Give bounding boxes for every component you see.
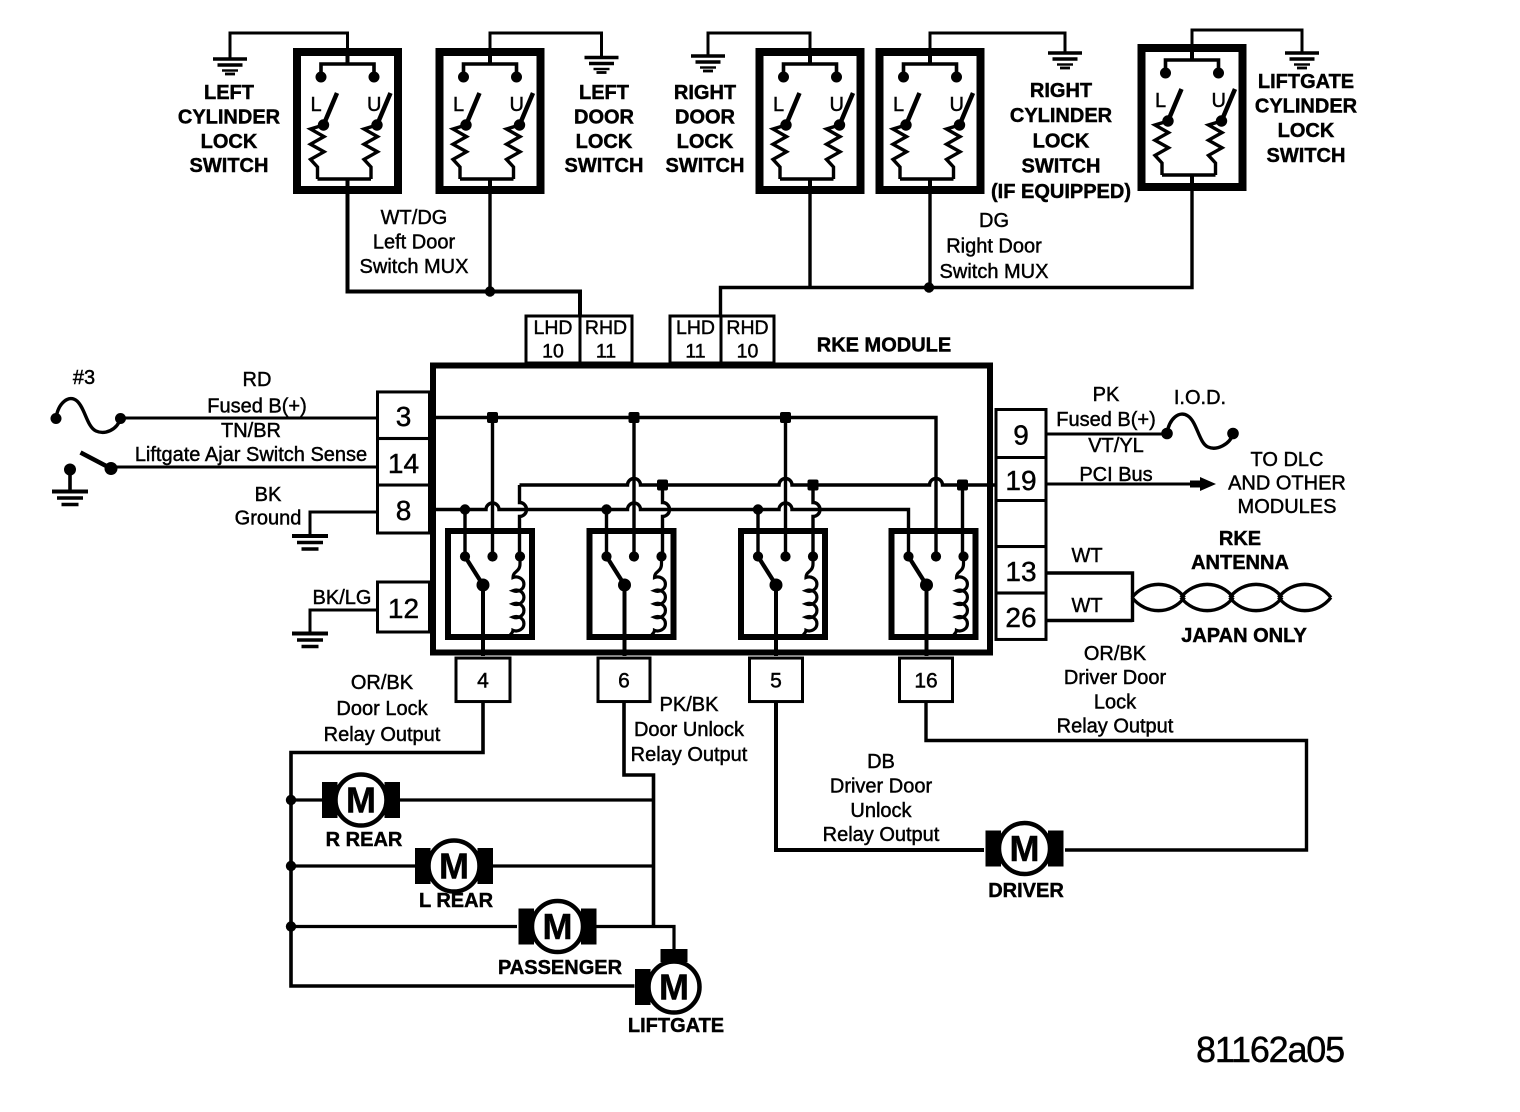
relay K4 (driver lock) [892,531,976,656]
ground pin 8 ground [292,536,328,549]
label PK Fused B(+) [1056,384,1155,431]
empty pin box [996,501,1046,547]
svg-text:13: 13 [1005,556,1036,587]
wire relay3 center feed [784,418,787,557]
wire pin 26 antenna wire [1046,619,1133,622]
svg-text:Driver Door: Driver Door [830,775,933,797]
svg-text:Unlock: Unlock [850,800,912,822]
svg-text:DG: DG [979,210,1009,232]
right cylinder lock switch SW4 [880,48,981,194]
svg-text:14: 14 [388,448,419,479]
label LIFTGATE [628,1015,724,1037]
wire bus C from pin 8 [430,503,909,556]
node bus C node R2 [601,504,611,514]
pin box 4 (bottom) [456,658,510,702]
splice #3 squiggle [56,399,121,433]
svg-text:M: M [659,967,689,1008]
svg-text:LEFT: LEFT [579,82,629,104]
svg-text:PK: PK [1093,384,1120,406]
liftgate ajar switch [81,453,112,469]
pin box RHD (top) [721,316,774,363]
relay K1 (door lock) [448,531,532,656]
pin box 16 (bottom) [900,658,953,702]
svg-text:Fused B(+): Fused B(+) [207,396,306,418]
node lock bus node 1 [286,795,296,805]
ground G5 liftgate cyl [1285,53,1319,68]
wire passenger motor wires [291,927,674,950]
wire SW1 ground wire [230,33,348,59]
wire relay3 left feed [756,510,759,557]
svg-text:WT: WT [1071,545,1102,567]
pin box 14 (left) [378,439,430,486]
svg-text:LOCK: LOCK [576,131,633,153]
wire pin 13 antenna wire [1046,573,1133,622]
svg-text:LOCK: LOCK [201,131,258,153]
wire bus B to pin 19 [520,479,997,486]
relay K3 (driver unlock) [741,531,825,656]
pin box 9 (right) [996,410,1046,458]
splice I.O.D. squiggle [1167,414,1233,448]
label RIGHT DOOR LOCK SWITCH [666,82,745,177]
wire SW3 ground wire [708,33,810,56]
svg-text:4: 4 [477,669,489,692]
wire SW5 ground wire [1192,30,1302,53]
svg-text:U: U [1212,90,1226,112]
svg-text:3: 3 [396,401,412,432]
svg-text:JAPAN ONLY: JAPAN ONLY [1181,625,1307,647]
svg-text:SWITCH: SWITCH [190,155,269,177]
wire pin 8 ground wire [310,512,378,535]
svg-text:LHD: LHD [676,317,715,339]
wire left door switch MUX [348,194,581,316]
label DG MUX [940,210,1049,283]
wire pin 16 wire to driver motor [926,702,1307,851]
relay K2 (door unlock) [590,531,674,656]
svg-text:Switch MUX: Switch MUX [940,261,1049,283]
wire relay4 coil feed [961,485,964,557]
svg-text:Relay Output: Relay Output [1057,716,1174,738]
svg-text:6: 6 [618,669,630,692]
label DRIVER [988,880,1064,902]
svg-text:WT/DG: WT/DG [381,207,448,229]
wire pin 9 wire to IOD [1046,433,1162,436]
svg-text:OR/BK: OR/BK [351,672,414,694]
node bus B node R3 [808,480,819,491]
pin box 26 (right) [996,593,1046,640]
label L REAR [419,890,494,912]
wire right door switch MUX [721,191,1193,316]
svg-text:R REAR: R REAR [326,829,403,851]
ground G3 right door [691,56,725,71]
svg-text:DB: DB [867,751,895,773]
wire pin 5 wire to driver motor [776,702,984,851]
wire RD fused B+ wire to pin 3 [121,417,378,420]
wire relay1 coil feed [520,485,527,557]
wire SW3 drop [808,194,811,288]
label BK/LG [313,587,372,609]
svg-text:L: L [311,94,322,116]
svg-text:SWITCH: SWITCH [1267,145,1346,167]
pin box LHD (top) [526,316,580,363]
motor M1 R REAR [322,775,400,826]
svg-text:Driver Door: Driver Door [1064,667,1167,689]
left door lock switch SW2 [440,48,541,194]
pin box 3 (left) [378,392,430,439]
svg-text:Left Door: Left Door [373,231,456,253]
svg-text:LEFT: LEFT [204,82,254,104]
wire pin 12 ground wire [310,610,378,632]
svg-text:LOCK: LOCK [677,131,734,153]
liftgate cylinder lock switch SW5 [1142,44,1243,191]
svg-text:11: 11 [596,341,616,363]
node bus C node R3 [753,504,763,514]
svg-text:Door Unlock: Door Unlock [634,719,745,741]
left cylinder lock switch SW1 [297,48,398,194]
node bus A node R1 [487,412,498,423]
svg-text:MODULES: MODULES [1238,496,1337,518]
label VT/YL PCI Bus [1079,435,1152,486]
wire pin 19 PCI bus wire [1046,483,1199,486]
svg-text:Door Lock: Door Lock [336,698,428,720]
svg-text:CYLINDER: CYLINDER [1255,96,1358,118]
node bus C node R1 [460,504,470,514]
svg-text:U: U [367,94,381,116]
label RIGHT CYLINDER LOCK SWITCH [991,80,1131,203]
wire bus A from pin 3 [430,418,936,479]
wire relay2 center feed [632,418,635,557]
label RKE ANTENNA [1191,528,1289,574]
svg-text:U: U [830,94,844,116]
right door lock switch SW3 [760,48,861,194]
svg-text:16: 16 [914,669,937,692]
label LEFT CYLINDER LOCK SWITCH [178,82,281,177]
svg-text:11: 11 [685,341,705,363]
svg-text:L: L [773,94,784,116]
svg-text:Relay Output: Relay Output [631,744,748,766]
svg-text:PASSENGER: PASSENGER [498,957,623,979]
svg-text:ANTENNA: ANTENNA [1191,552,1289,574]
pin box RHD (top) [580,316,632,363]
svg-text:Lock: Lock [1094,691,1137,713]
svg-text:L: L [893,94,904,116]
pin box 5 (bottom) [750,658,803,702]
pin box 6 (bottom) [598,658,650,702]
wire relay3 coil feed [813,485,820,557]
ground pin 12 ground [292,634,328,647]
svg-text:L: L [1155,90,1166,112]
node lock bus node 3 [286,921,296,931]
svg-text:RHD: RHD [585,317,627,339]
svg-text:Switch MUX: Switch MUX [360,256,469,278]
pin box 8 (left) [378,485,430,533]
svg-text:10: 10 [737,341,759,363]
svg-text:DOOR: DOOR [675,106,736,128]
svg-text:BK/LG: BK/LG [313,587,372,609]
svg-text:#3: #3 [73,367,95,389]
motor M3 PASSENGER [519,901,597,952]
wire relay1 center feed [491,418,494,557]
motor M4 LIFTGATE [635,949,700,1013]
label PK/BK door unlock [631,694,748,766]
label OR/BK driver door lock [1057,643,1174,738]
wire liftgate ajar sense wire to pin 14 [111,466,378,469]
svg-text:PK/BK: PK/BK [660,694,720,716]
svg-text:8: 8 [396,495,412,526]
motor M2 L REAR [415,841,493,892]
node bus A node R3 [780,412,791,423]
wire L rear motor wires [291,864,654,867]
svg-text:M: M [543,906,573,947]
node lock bus node 2 [286,861,296,871]
label PASSENGER [498,957,623,979]
svg-text:I.O.D.: I.O.D. [1174,387,1226,409]
label RD Fused B(+) [207,369,306,418]
label OR/BK door lock [324,672,441,746]
label BK Ground [235,484,302,530]
svg-text:Relay Output: Relay Output [324,724,441,746]
svg-text:26: 26 [1005,602,1036,633]
svg-text:Ground: Ground [235,508,302,530]
svg-text:LIFTGATE: LIFTGATE [628,1015,724,1037]
label LIFTGATE CYLINDER LOCK SWITCH [1255,71,1358,167]
pin box 13 (right) [996,547,1046,594]
svg-text:RIGHT: RIGHT [1030,80,1092,102]
svg-text:RD: RD [243,369,272,391]
wire relay2 coil feed [663,485,670,557]
wire SW4 ground wire [930,33,1065,53]
ground G4 right cyl [1048,53,1082,68]
wire SW2 ground wire [490,33,602,58]
svg-text:SWITCH: SWITCH [1022,156,1101,178]
svg-text:WT: WT [1071,595,1102,617]
svg-text:SWITCH: SWITCH [565,155,644,177]
svg-text:LIFTGATE: LIFTGATE [1258,71,1354,93]
node left MUX junction [485,286,495,296]
svg-text:U: U [950,94,964,116]
svg-text:Relay Output: Relay Output [823,824,940,846]
ground G1 left cyl [213,59,247,74]
motor M5 DRIVER [986,823,1064,874]
ground G2 left door [585,58,619,73]
wire SW4 drop [928,194,931,288]
svg-text:VT/YL: VT/YL [1088,435,1144,457]
svg-text:RKE: RKE [1219,528,1261,550]
svg-text:LHD: LHD [533,317,572,339]
RKE antenna braid [1132,584,1331,610]
label R REAR [326,829,403,851]
label TO DLC AND OTHER MODULES [1228,449,1346,518]
label WT/DG MUX [360,207,469,278]
svg-text:AND OTHER: AND OTHER [1228,473,1346,495]
svg-text:BK: BK [255,484,282,506]
svg-text:SWITCH: SWITCH [666,155,745,177]
svg-text:81162a05: 81162a05 [1196,1029,1344,1070]
svg-text:M: M [346,780,376,821]
svg-text:(IF EQUIPPED): (IF EQUIPPED) [991,181,1131,203]
PCI bus arrow [1190,481,1200,488]
node bus B node R2 [657,480,668,491]
node bus B node R4 [957,480,968,491]
svg-text:RIGHT: RIGHT [674,82,736,104]
wire bus A drop to relay 4 center [934,479,937,557]
svg-text:Fused B(+): Fused B(+) [1056,409,1155,431]
wire relay1 left feed [463,510,466,557]
svg-text:DOOR: DOOR [574,106,635,128]
wire R rear motor wires [291,798,654,801]
svg-text:5: 5 [770,669,782,692]
node right MUX junction [924,282,934,292]
svg-text:OR/BK: OR/BK [1084,643,1147,665]
svg-text:Liftgate Ajar Switch Sense: Liftgate Ajar Switch Sense [135,444,367,466]
svg-text:TO DLC: TO DLC [1251,449,1324,471]
svg-text:DRIVER: DRIVER [988,880,1064,902]
svg-text:U: U [510,94,524,116]
svg-text:LOCK: LOCK [1033,130,1090,152]
svg-text:TN/BR: TN/BR [221,420,281,442]
node bus A node R2 [629,412,640,423]
label LEFT DOOR LOCK SWITCH [565,82,644,177]
svg-text:12: 12 [388,593,419,624]
label TN/BR Liftgate Ajar [135,420,367,466]
svg-text:9: 9 [1013,420,1029,451]
svg-text:10: 10 [542,341,564,363]
svg-text:CYLINDER: CYLINDER [1010,105,1113,127]
svg-text:19: 19 [1005,465,1036,496]
label JAPAN ONLY [1181,625,1307,647]
svg-text:Right Door: Right Door [946,235,1042,257]
label DB driver door unlock [823,751,940,846]
pin box 12 (left) [378,582,430,632]
svg-text:L: L [453,94,464,116]
wire pin 4 lock output bus [291,702,635,987]
wire relay2 left feed [605,510,608,557]
ground ajar switch ground [52,474,88,505]
svg-text:LOCK: LOCK [1278,120,1335,142]
svg-text:RKE MODULE: RKE MODULE [817,335,951,357]
svg-text:L REAR: L REAR [419,890,494,912]
wire pin 6 unlock output bus [624,702,654,927]
svg-text:CYLINDER: CYLINDER [178,106,281,128]
svg-text:M: M [439,846,469,887]
pin box 19 (right) [996,458,1046,501]
pin box LHD (top) [670,316,721,363]
RKE module box U1 [433,366,990,653]
svg-text:RHD: RHD [726,317,768,339]
svg-text:M: M [1010,828,1040,869]
wire SW2 drop [488,194,491,292]
